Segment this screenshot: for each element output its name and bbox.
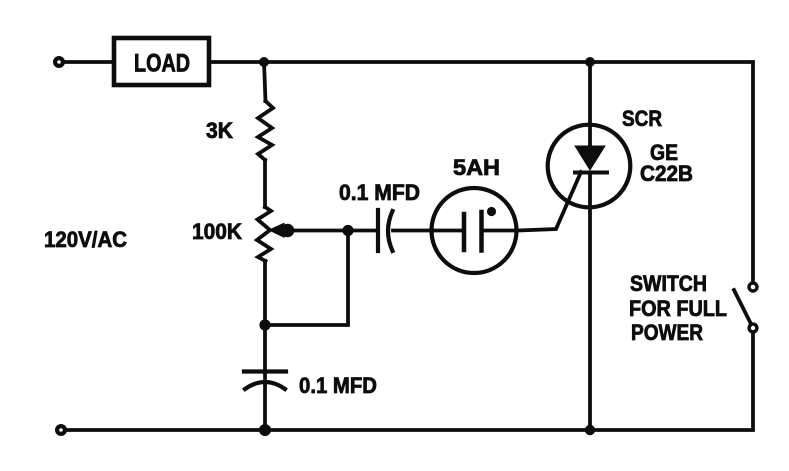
svg-text:0.1 MFD: 0.1 MFD [299,373,377,398]
node D (junction SCR to bottom rail) [585,425,595,435]
node B (junction top of SCR) [585,57,595,67]
potentiometer R2 100K [257,207,271,261]
svg-text:LOAD: LOAD [134,50,190,78]
svg-text:C22B: C22B [640,161,693,186]
wire top rail node B to right corner [590,62,753,282]
label SWITCH FOR FULL POWER [629,271,727,345]
svg-text:SCR: SCR [622,106,662,131]
wire 3K to potentiometer [263,160,267,207]
load box LOAD [114,38,209,85]
potentiometer wiper arrow [268,223,285,239]
wire capacitor C2 to bottom rail [263,382,267,430]
svg-text:SWITCH: SWITCH [630,271,707,296]
wire pot bottom to node E to capacitor C2 [263,261,267,378]
wire loop from node C down and left to node E [265,231,348,326]
wire switch to bottom rail [66,333,753,431]
svg-text:5AH: 5AH [453,155,500,180]
svg-text:3K: 3K [206,118,233,143]
terminal T2 (bottom left input) [57,426,65,434]
capacitor C2 0.1 MFD (bottom) [244,372,286,390]
svg-text:POWER: POWER [631,320,703,345]
wire wiper to node C [290,229,348,233]
svg-text:120V/AC: 120V/AC [44,227,127,252]
node E (junction on pot bottom lead) [259,319,270,330]
svg-text:FOR FULL: FOR FULL [629,296,727,321]
neon lamp NE1 5AH [432,188,517,273]
node A (junction top of resistor 3K) [259,57,269,67]
wire wiper node C to capacitor C1 [348,229,376,233]
capacitor C1 0.1 MFD (coupling) [378,210,393,251]
wire node A down to resistor 3K [264,62,266,101]
wire capacitor C1 to neon lamp [393,229,433,233]
node C (junction on wiper wire) [342,225,353,236]
wire LOAD to node A [209,60,264,64]
wire neon lamp to SCR gate [518,172,582,231]
node F (junction bottom rail) [259,424,271,436]
SCR U1 GE C22B [548,62,631,430]
svg-text:100K: 100K [192,219,242,244]
switch S1 (SWITCH FOR FULL POWER) [734,283,757,332]
wire top rail node A to node B [264,60,590,64]
terminal T1 (top left input) [55,58,63,66]
svg-text:0.1 MFD: 0.1 MFD [339,180,420,205]
wire T1 to LOAD [64,60,113,64]
resistor R1 3K [258,101,273,160]
